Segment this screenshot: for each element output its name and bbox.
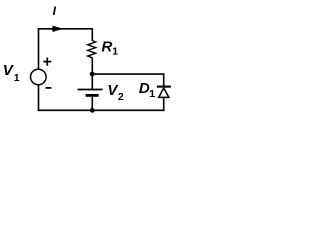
wire right branch lower (diode to bottom wire) <box>163 97 165 111</box>
minus sign <box>46 87 52 89</box>
battery V2 long plate <box>78 89 103 91</box>
resistor R1 <box>88 41 96 58</box>
label D1 <box>139 80 155 100</box>
wire R1 branch bottom (battery to bottom wire) <box>91 97 93 111</box>
diode D1 cathode bar <box>157 86 171 88</box>
wire R1 branch middle (resistor to battery) <box>91 57 93 89</box>
wire top (V1 to R1 branch) <box>38 28 93 30</box>
current arrow I <box>52 26 63 32</box>
svg-text:D: D <box>139 80 150 97</box>
label V2 <box>107 82 124 103</box>
wire bottom <box>38 109 165 111</box>
wire right branch upper (corner to diode) <box>163 73 165 86</box>
node junction dot lower <box>90 108 95 113</box>
svg-text:1: 1 <box>112 45 118 57</box>
svg-text:1: 1 <box>14 72 20 84</box>
label R1 <box>102 39 119 58</box>
voltage source V1 <box>31 69 47 85</box>
wire left upper (corner to source top) <box>38 28 40 69</box>
wire left lower (source bottom to corner) <box>38 85 40 111</box>
svg-text:2: 2 <box>118 91 124 103</box>
svg-text:R: R <box>102 39 113 56</box>
plus sign <box>43 58 51 66</box>
label V1 <box>3 62 20 84</box>
battery V2 short plate <box>86 94 99 97</box>
wire middle horizontal (to diode branch) <box>92 73 164 75</box>
svg-text:1: 1 <box>149 88 155 100</box>
wire R1 branch top <box>91 28 93 41</box>
node junction dot upper <box>90 72 95 77</box>
diode D1 triangle <box>159 88 169 97</box>
